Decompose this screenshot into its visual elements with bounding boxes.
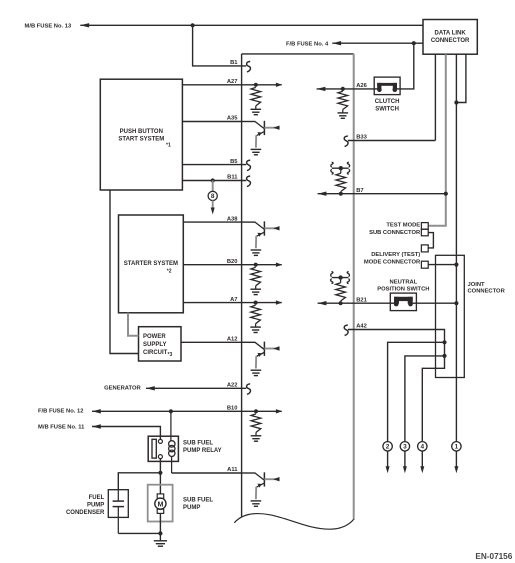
label pin B11 <box>227 175 238 181</box>
motor M sub fuel pump <box>155 494 166 514</box>
wire pin B21 internal with left arrow <box>318 301 391 305</box>
wire M/B fuse No.13 feed with left arrow <box>80 23 423 27</box>
svg-text:CONDENSER: CONDENSER <box>66 510 105 516</box>
pin A22 connector squiggle <box>247 384 251 395</box>
capacitor C fuel pump condenser <box>113 490 124 534</box>
wire pin A12 from power supply circuit <box>181 341 242 343</box>
connector pin delivery mode upper <box>421 245 428 252</box>
wire DLC pin 1 to B33 <box>434 54 436 140</box>
wire pin A26 to clutch switch <box>354 88 375 90</box>
label SUB FUEL PUMP <box>183 497 213 511</box>
wire test-mode pin2 to delivery pin1 <box>428 233 433 248</box>
wire pin B11 from push-button box <box>182 180 246 182</box>
svg-text:DATA LINK: DATA LINK <box>434 31 466 37</box>
label pin B10 <box>227 406 238 412</box>
label pin A35 <box>227 116 238 122</box>
label pin B7 <box>356 188 363 194</box>
svg-text:SWITCH: SWITCH <box>375 107 399 113</box>
transistor inside ECM at A38 <box>242 221 280 255</box>
box JOINT CONNECTOR <box>436 255 506 377</box>
svg-text:SUB FUEL: SUB FUEL <box>183 440 213 446</box>
wire pin B5 from push-button box <box>182 164 246 166</box>
resistor to ground inside ECM at B10 with output arrow <box>242 409 283 441</box>
svg-text:*3: *3 <box>168 352 173 358</box>
connector pair above B7 resistor <box>331 162 350 174</box>
arrow below circled 8 <box>211 201 215 215</box>
label pin A27 <box>227 79 238 85</box>
lead symbol circled 1 <box>452 442 461 474</box>
wire pin B20 from starter box <box>183 264 241 266</box>
svg-text:GENERATOR: GENERATOR <box>104 386 141 392</box>
label pin B33 <box>356 135 367 141</box>
wire pump to ground <box>159 513 161 540</box>
svg-text:POWER: POWER <box>143 334 166 340</box>
junction node on M/B fuse line <box>191 23 195 27</box>
switch CLUTCH SWITCH <box>374 77 400 113</box>
svg-text:M/B FUSE No. 11: M/B FUSE No. 11 <box>38 425 85 431</box>
svg-text:1: 1 <box>455 444 459 451</box>
pin B11 connector squiggle <box>247 176 251 187</box>
box POWER SUPPLY CIRCUIT *3 <box>139 327 182 361</box>
relay box SUB FUEL PUMP RELAY <box>148 436 221 461</box>
wire pin A42 distribution <box>348 330 445 442</box>
wire branch to lead 3 <box>405 356 445 442</box>
wire ECM left bus <box>241 54 243 517</box>
svg-text:M: M <box>158 499 164 508</box>
label pin B20 <box>227 259 238 265</box>
wire branch to pin B1 <box>193 25 247 66</box>
svg-text:CONNECTOR: CONNECTOR <box>468 289 506 295</box>
label pin B5 <box>230 159 238 165</box>
relay contact bar <box>152 439 156 458</box>
transistor inside ECM at A12 <box>242 342 280 376</box>
wire B11 branch down to ground point 8 <box>212 181 214 192</box>
label FUEL PUMP CONDENSER <box>66 495 105 516</box>
label pin A26 <box>356 83 367 89</box>
wire pin A35 from push-button box <box>182 121 241 123</box>
box around sub fuel pump (gray) <box>148 485 173 522</box>
svg-text:EN-07156: EN-07156 <box>475 552 512 561</box>
wire pin A38 from starter box <box>183 221 241 223</box>
svg-text:F/B FUSE No. 12: F/B FUSE No. 12 <box>38 409 83 415</box>
svg-text:B1: B1 <box>230 60 238 66</box>
resistor to ground inside ECM at A27 with output arrow <box>242 83 283 115</box>
svg-text:POSITION SWITCH: POSITION SWITCH <box>377 286 429 292</box>
connector pin delivery mode lower <box>421 261 428 268</box>
svg-text:STARTER SYSTEM: STARTER SYSTEM <box>124 261 178 267</box>
wire M/B fuse No.11 to relay contact with left arrow <box>92 424 160 439</box>
lead symbol circled 3 <box>400 442 409 474</box>
box STARTER SYSTEM *2 <box>119 215 184 313</box>
wire from F/B fuse line down to clutch switch <box>400 43 414 89</box>
svg-text:CLUTCH: CLUTCH <box>375 99 400 105</box>
resistor pull-down at A26 <box>338 91 348 113</box>
figure number EN-07156 <box>475 552 512 561</box>
wire neutral switch to joint connector <box>416 302 456 304</box>
label pin B21 <box>356 297 367 303</box>
svg-text:A27: A27 <box>227 79 238 85</box>
resistor to ground inside ECM at A7 with output arrow <box>242 300 283 332</box>
switch NEUTRAL POSITION SWITCH <box>377 280 429 311</box>
svg-text:PUMP RELAY: PUMP RELAY <box>183 448 222 454</box>
svg-text:MODE CONNECTOR: MODE CONNECTOR <box>364 260 421 266</box>
junction node B7 on DLC pin2 line <box>444 192 448 196</box>
svg-text:8: 8 <box>211 193 215 200</box>
wire starter box to power supply circuit (gray) <box>128 313 139 336</box>
junction node A26 pull-down <box>341 87 345 91</box>
svg-text:3: 3 <box>403 444 407 451</box>
wire DLC pin 3 joint-connector line <box>455 54 457 441</box>
junction node delivery/joint <box>454 263 458 267</box>
svg-text:PUMP: PUMP <box>87 503 104 509</box>
label M/B FUSE No. 11 <box>38 425 85 431</box>
label M/B FUSE No. 13 <box>25 23 72 29</box>
ground point symbol circled 8 <box>208 191 217 200</box>
transistor inside ECM at A11 <box>242 472 280 506</box>
svg-text:A26: A26 <box>356 83 367 89</box>
wire pin B7 internal/external with left arrow <box>318 192 446 196</box>
svg-text:PUSH BUTTON: PUSH BUTTON <box>120 129 163 135</box>
label F/B FUSE No. 4 <box>286 41 329 47</box>
pin A42 connector squiggle <box>344 325 348 336</box>
wire condenser branch top <box>118 473 160 490</box>
box around condenser <box>108 490 128 518</box>
svg-text:SUB CONNECTOR: SUB CONNECTOR <box>369 230 421 236</box>
wire relay contact to fuel pump <box>159 459 161 494</box>
svg-text:A35: A35 <box>227 116 238 122</box>
pin B5 connector squiggle <box>247 160 251 171</box>
svg-text:2: 2 <box>386 444 390 451</box>
transistor inside ECM at A35 <box>242 121 280 155</box>
ground below A26 resistor <box>338 113 349 118</box>
label pin B1 <box>230 60 238 66</box>
wire condenser branch bottom <box>118 532 160 534</box>
svg-text:*2: *2 <box>167 269 172 275</box>
wire clutch switch contacts stubs <box>374 88 400 90</box>
wire F/B fuse No.4 feed with left arrow <box>332 41 423 45</box>
box PUSH BUTTON START SYSTEM *1 <box>100 79 182 190</box>
junction node B7 pull-up <box>339 192 343 196</box>
wire pin A7 from starter box <box>183 302 241 304</box>
svg-text:NEUTRAL: NEUTRAL <box>390 280 418 286</box>
lead symbol circled 2 <box>383 442 392 474</box>
svg-text:SUPPLY: SUPPLY <box>143 342 166 348</box>
wire pin A11 from relay coil <box>172 472 242 474</box>
label pin A12 <box>227 337 238 343</box>
svg-text:SUB FUEL: SUB FUEL <box>183 497 213 503</box>
junction node on F/B fuse No.4 line <box>412 41 416 45</box>
label TEST MODE SUB CONNECTOR <box>369 223 421 237</box>
label pin A42 <box>356 324 367 330</box>
label pin A38 <box>227 216 238 222</box>
svg-text:START SYSTEM: START SYSTEM <box>118 136 164 142</box>
label DELIVERY (TEST) MODE CONNECTOR <box>364 252 421 266</box>
ECM torn bottom edge <box>234 514 353 530</box>
connector pair above B21 resistor <box>331 272 350 284</box>
junction node condenser tap <box>158 471 162 475</box>
junction node pump/condenser bottom <box>158 531 162 535</box>
resistor pull-up at B7 <box>336 173 346 191</box>
lead symbol circled 4 <box>418 442 427 474</box>
label pin A7 <box>230 297 237 303</box>
pin B1 connector squiggle <box>247 61 251 72</box>
wire ECM right bus (gray) <box>353 54 355 520</box>
junction node A42 branch upper <box>442 340 446 344</box>
ground below sub fuel pump <box>154 541 167 546</box>
wire pin B33 to DLC pin 1 <box>348 140 435 142</box>
svg-text:*1: *1 <box>166 143 171 149</box>
junction node relay coil feed <box>169 409 173 413</box>
relay coil <box>169 411 175 473</box>
relay contact terminals <box>158 439 162 458</box>
wire pin B10 to F/B fuse No.12 with left arrow <box>92 409 242 413</box>
junction node B21 pull-up <box>339 301 343 305</box>
svg-text:F/B FUSE No. 4: F/B FUSE No. 4 <box>286 41 329 47</box>
svg-text:PUMP: PUMP <box>183 505 200 511</box>
junction node pin4/pin3 <box>454 100 458 104</box>
pin B33 connector squiggle <box>344 136 348 147</box>
connector box DATA LINK CONNECTOR <box>423 20 477 55</box>
svg-text:JOINT: JOINT <box>468 282 486 288</box>
svg-text:TEST MODE: TEST MODE <box>386 223 420 229</box>
wire branch to lead 2 <box>388 342 445 441</box>
wire DLC pin 2 (gray) to B7 and test mode connector <box>428 54 446 226</box>
label pin A11 <box>227 467 238 473</box>
svg-text:M/B FUSE No. 13: M/B FUSE No. 13 <box>25 23 72 29</box>
wire pin A27 from push-button box <box>182 84 241 86</box>
junction node on B11 wire <box>211 178 215 182</box>
svg-text:DELIVERY (TEST): DELIVERY (TEST) <box>371 252 420 258</box>
wire pin A22 to generator with left arrow <box>146 386 246 390</box>
resistor to ground inside ECM at B20 with output arrow <box>242 263 283 295</box>
connector pins test mode sub connector <box>421 223 428 236</box>
junction node A42 branch lower <box>442 354 446 358</box>
resistor pull-up at B21 <box>336 283 346 301</box>
wire delivery pin to joint connector line <box>428 264 456 266</box>
label F/B FUSE No. 12 <box>38 409 83 415</box>
wire DLC pin 4 joining pin 3 <box>456 54 466 102</box>
label pin A22 <box>227 383 238 389</box>
wire neutral switch stubs <box>390 302 416 304</box>
label GENERATOR <box>104 386 141 392</box>
wire push-button box to power supply circuit <box>110 190 139 354</box>
svg-text:FUEL: FUEL <box>89 495 105 501</box>
junction node B21/joint <box>454 301 458 305</box>
svg-text:4: 4 <box>420 444 424 451</box>
wire ECM top edge <box>242 53 354 55</box>
svg-text:CIRCUIT: CIRCUIT <box>143 350 168 356</box>
wire pin A26 internal with left arrow <box>317 87 354 91</box>
svg-text:CONNECTOR: CONNECTOR <box>431 38 470 44</box>
